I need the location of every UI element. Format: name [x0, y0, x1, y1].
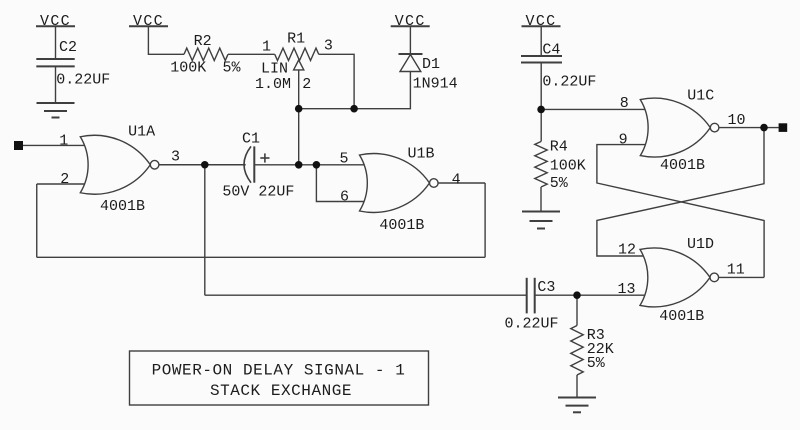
resistor R4 [535, 142, 547, 188]
svg-text:9: 9 [619, 132, 628, 149]
svg-text:D1: D1 [422, 56, 440, 73]
svg-text:4: 4 [452, 172, 461, 189]
svg-text:U1B: U1B [408, 146, 435, 163]
wire R2 to R1 [228, 53, 275, 55]
junction wiper rail [295, 105, 303, 113]
wire feedback bottom [37, 256, 485, 258]
junction out10 [760, 124, 768, 132]
potentiometer R1 [275, 48, 319, 60]
svg-text:1N914: 1N914 [413, 76, 458, 93]
capacitor C2 [36, 59, 74, 66]
wire input to U1A pin1 [23, 144, 88, 146]
junction C3 R3 [573, 291, 581, 299]
terminal output square [779, 123, 788, 132]
op-amp U1A nor gate [80, 135, 150, 194]
svg-text:U1C: U1C [687, 87, 714, 104]
bubble U1C [710, 123, 719, 132]
svg-text:3: 3 [171, 149, 180, 166]
svg-text:4001B: 4001B [660, 157, 705, 174]
wire C4/R4 node to pin8 [541, 108, 647, 110]
svg-text:0.22UF: 0.22UF [505, 315, 559, 332]
junction node 3 [201, 161, 209, 169]
wire VCC4 to C4 [540, 26, 542, 56]
wire out10 cross to U1D pin12 [597, 128, 764, 256]
wire R1 pin3 [319, 54, 354, 108]
junction pin6 tap [313, 161, 321, 169]
svg-text:5: 5 [339, 150, 348, 167]
wire node3 down [204, 165, 206, 295]
svg-text:13: 13 [618, 281, 636, 298]
svg-text:C4: C4 [542, 41, 560, 58]
svg-text:VCC: VCC [526, 13, 557, 30]
bubble U1D [710, 273, 719, 282]
wire U1B pin6 stub [316, 165, 366, 202]
svg-text:4001B: 4001B [659, 308, 704, 325]
svg-text:8: 8 [620, 95, 629, 112]
wire U1C pin9 cross to out11 [597, 145, 764, 278]
wire R1 wiper down [298, 70, 300, 165]
ground (R3) [558, 398, 596, 413]
svg-text:6: 6 [340, 189, 349, 206]
svg-text:2: 2 [60, 171, 69, 188]
bubble U1B [430, 179, 439, 188]
wire U1D output 11 [719, 276, 765, 278]
title box [130, 351, 429, 405]
power symbol VCC3 [391, 25, 430, 27]
resistor R2 [184, 48, 228, 60]
op-amp U1B nor gate [360, 154, 430, 213]
svg-text:10: 10 [728, 112, 746, 129]
svg-text:50V 22UF: 50V 22UF [222, 184, 294, 201]
svg-text:5%: 5% [587, 355, 606, 372]
wire U1C output 10 [719, 127, 779, 129]
wire feedback left vertical [36, 184, 38, 257]
svg-text:3: 3 [324, 37, 333, 54]
capacitor C1 [244, 146, 254, 182]
svg-text:100K: 100K [550, 157, 586, 174]
svg-text:12: 12 [618, 242, 636, 259]
svg-text:STACK EXCHANGE: STACK EXCHANGE [210, 382, 352, 400]
svg-text:11: 11 [727, 262, 745, 279]
svg-text:1: 1 [59, 132, 68, 149]
wire node rail [299, 72, 411, 109]
power symbol VCC2 [129, 25, 168, 27]
capacitor C4 [521, 56, 562, 63]
svg-text:R2: R2 [194, 33, 212, 50]
wire feedback right vertical [484, 183, 486, 257]
wire R4 to ground [540, 187, 542, 212]
wire VCC3 to D1 [409, 26, 411, 54]
junction C1 out [295, 161, 303, 169]
wiper arrow R1 [294, 60, 304, 70]
terminal input square [14, 141, 23, 150]
op-amp U1C nor gate [640, 98, 710, 157]
svg-text:4001B: 4001B [100, 198, 145, 215]
capacitor C3 [527, 278, 535, 314]
svg-text:1: 1 [262, 39, 271, 56]
svg-text:C1: C1 [242, 131, 260, 148]
wire U1B output 4 [438, 182, 485, 184]
svg-text:100K: 100K [170, 59, 206, 76]
junction pin3 rail [350, 105, 358, 113]
wire R3 top [576, 295, 578, 325]
svg-text:VCC: VCC [40, 13, 71, 30]
diode D1 [399, 54, 423, 72]
wire VCC1 to C2 [55, 26, 57, 59]
wire U1A pin2 [37, 183, 88, 185]
junction C4 R4 [537, 106, 545, 114]
svg-text:POWER-ON DELAY SIGNAL - 1: POWER-ON DELAY SIGNAL - 1 [152, 361, 406, 379]
power symbol VCC1 [36, 25, 75, 27]
svg-text:5%: 5% [550, 175, 569, 192]
svg-text:1.0M: 1.0M [255, 76, 291, 93]
resistor R3 [571, 326, 583, 376]
svg-text:R1: R1 [287, 30, 305, 47]
wire C3 to U1D pin13 [535, 294, 648, 296]
svg-text:C3: C3 [537, 279, 555, 296]
bubble U1A [150, 160, 159, 169]
plus sign C1 [260, 153, 269, 162]
wire R3 to ground [576, 375, 578, 398]
wire C2 to ground [55, 66, 57, 103]
svg-text:U1D: U1D [687, 236, 714, 253]
svg-text:0.22UF: 0.22UF [56, 72, 110, 89]
wire VCC2 to R2 [148, 26, 184, 54]
wire to C3 [205, 294, 527, 296]
svg-text:5%: 5% [223, 59, 242, 76]
power symbol VCC4 [522, 25, 561, 27]
op-amp U1D nor gate [640, 248, 710, 307]
svg-text:VCC: VCC [395, 13, 426, 30]
ground (C2) [37, 103, 75, 118]
svg-text:VCC: VCC [133, 13, 164, 30]
svg-text:U1A: U1A [128, 123, 155, 140]
wire C1 to U1B pin5 [254, 164, 366, 166]
svg-text:0.22UF: 0.22UF [542, 74, 596, 91]
ground (R4) [522, 212, 560, 229]
svg-text:R4: R4 [550, 139, 568, 156]
wire C4 to R4 [540, 63, 542, 142]
svg-text:2: 2 [302, 76, 311, 93]
wire U1A output 3 [159, 164, 246, 166]
svg-text:4001B: 4001B [379, 217, 424, 234]
svg-text:C2: C2 [59, 39, 77, 56]
